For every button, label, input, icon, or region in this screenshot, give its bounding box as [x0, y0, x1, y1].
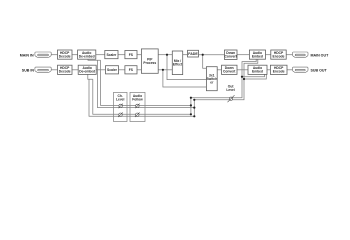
wire FS 2 to PiP Process [137, 69, 141, 71]
junction dot bus L top [190, 97, 192, 99]
wire Audio De-embed 1 to Scaler 1 [96, 54, 105, 56]
PiP Process [141, 49, 158, 73]
junction dot pre-Mix row1 [166, 54, 168, 56]
FS 1 [125, 51, 137, 59]
attenuator Out Level [228, 95, 235, 102]
wire bus vertical L [191, 59, 256, 114]
svg-text:Convert: Convert [223, 70, 236, 74]
HDCP Decode 1 [58, 50, 73, 59]
junction dot bus L low [190, 113, 192, 115]
wire HDCP Decode 1 to Audio De-embed 1 [72, 54, 78, 56]
junction dot pre-Mix row2 [162, 69, 164, 71]
wire tap row1 to switcher pin1 (after FADE) [203, 55, 207, 69]
wire bus branch to Audio Embed 2 (L) [242, 74, 265, 76]
Down Convert 2 [222, 65, 238, 74]
wire audio riser sub L [93, 79, 191, 114]
connector SUB IN [35, 67, 51, 73]
svg-text:Scaler: Scaler [106, 53, 117, 57]
attenuator Ch Level pair1 [118, 104, 123, 109]
wire Scaler 2 to FS 2 [119, 69, 125, 71]
wire audio riser main L [101, 60, 191, 105]
junction dot bus L mid [190, 104, 192, 106]
svg-text:De-embed: De-embed [79, 70, 95, 74]
junction dot bus branch R [243, 78, 245, 80]
wire PiP Process to Mix/Effect row1 [158, 54, 172, 56]
Audio Embed 1 [249, 50, 265, 59]
wire HDCP Encode 2 to SUB OUT connector [287, 69, 293, 71]
connector MAIN OUT [293, 52, 309, 58]
svg-text:Level: Level [116, 98, 125, 102]
svg-text:Effect: Effect [173, 62, 183, 66]
svg-text:Embed: Embed [252, 55, 263, 59]
wire bus branch to Audio Embed 2 (R) [244, 74, 266, 79]
wire Audio Embed 2 to HDCP Encode 2 [267, 69, 270, 71]
Mix/Effect [172, 51, 183, 75]
wire HDCP Encode 1 to MAIN OUT connector [286, 54, 292, 56]
wire MAIN IN to HDCP Decode 1 [51, 54, 57, 56]
junction dot bus R mid [193, 107, 195, 109]
svg-text:Encode: Encode [273, 70, 285, 74]
attenuator Audio Follow pair1 [135, 104, 140, 109]
junction dot post-FADE [202, 54, 204, 56]
wire audio riser main R [98, 60, 195, 107]
FS 2 [125, 66, 137, 74]
HDCP Decode 2 [58, 65, 73, 74]
Audio De-embed 2 [78, 65, 96, 74]
svg-text:Process: Process [143, 61, 156, 65]
FADE [188, 50, 199, 57]
label Out Level [226, 85, 235, 93]
wire audio riser sub R [89, 79, 194, 116]
svg-text:De-embed: De-embed [79, 55, 95, 59]
junction dot bus branch L [241, 76, 243, 78]
Down Convert 1 [224, 50, 237, 60]
3x1 Switcher [206, 67, 217, 91]
junction dot bus R low [193, 115, 195, 117]
Scaler 2 [106, 66, 119, 74]
wire Down Convert 1 to Audio Embed 1 [237, 54, 249, 56]
wire SUB IN to HDCP Decode 2 [51, 69, 57, 71]
svg-text:SUB IN: SUB IN [22, 69, 35, 73]
Ch Level box [114, 92, 128, 121]
svg-text:Scaler: Scaler [107, 68, 118, 72]
svg-text:MAIN IN: MAIN IN [20, 54, 34, 58]
wire Scaler 1 to FS 1 [118, 54, 125, 56]
wire Audio Embed 1 to HDCP Encode 1 [266, 54, 271, 56]
svg-text:Encode: Encode [273, 55, 285, 59]
svg-text:Embed: Embed [252, 70, 263, 74]
wire 3x1 Switcher to Down Convert 2 [217, 69, 221, 71]
connector SUB OUT [293, 67, 309, 73]
attenuator Audio Follow pair2 [135, 112, 140, 117]
wire Audio De-embed 2 to Scaler 2 [96, 69, 105, 71]
svg-text:Decode: Decode [59, 55, 71, 59]
wire audio jog from Audio De-embed 1 bottom [88, 59, 101, 60]
svg-text:SUB OUT: SUB OUT [311, 69, 328, 73]
svg-text:Decode: Decode [59, 70, 71, 74]
Audio Follow box [130, 92, 145, 121]
Audio De-embed 1 [78, 50, 96, 59]
wire FADE to Down Convert 1 [199, 54, 225, 56]
wire tap row1 to switcher pin2 (before Mix) [167, 55, 206, 80]
svg-text:Convert: Convert [224, 55, 237, 59]
wire tap row2 to switcher pin3 [163, 70, 207, 87]
wire Mix/Effect to FADE [183, 54, 188, 56]
Scaler 1 [105, 51, 118, 59]
wire audio jog from Audio De-embed 2 bottom [88, 74, 93, 79]
wire bus vertical R [194, 59, 257, 116]
Audio Embed 2 [248, 65, 267, 74]
wire HDCP Decode 2 to Audio De-embed 2 [72, 69, 78, 71]
svg-text:Level: Level [226, 88, 235, 92]
junction dot bus R top [193, 99, 195, 101]
attenuator Ch Level pair2 [118, 112, 123, 117]
connector MAIN IN [35, 52, 51, 58]
HDCP Encode 2 [270, 65, 287, 74]
wire FS 1 to PiP Process [137, 54, 141, 56]
svg-text:FADE: FADE [188, 52, 198, 56]
HDCP Encode 1 [271, 50, 286, 59]
svg-text:Follow: Follow [132, 98, 143, 102]
wire Down Convert 2 to Audio Embed 2 [237, 69, 248, 71]
svg-text:MAIN OUT: MAIN OUT [311, 54, 330, 58]
wire PiP Process to Mix/Effect row2 [158, 69, 172, 71]
